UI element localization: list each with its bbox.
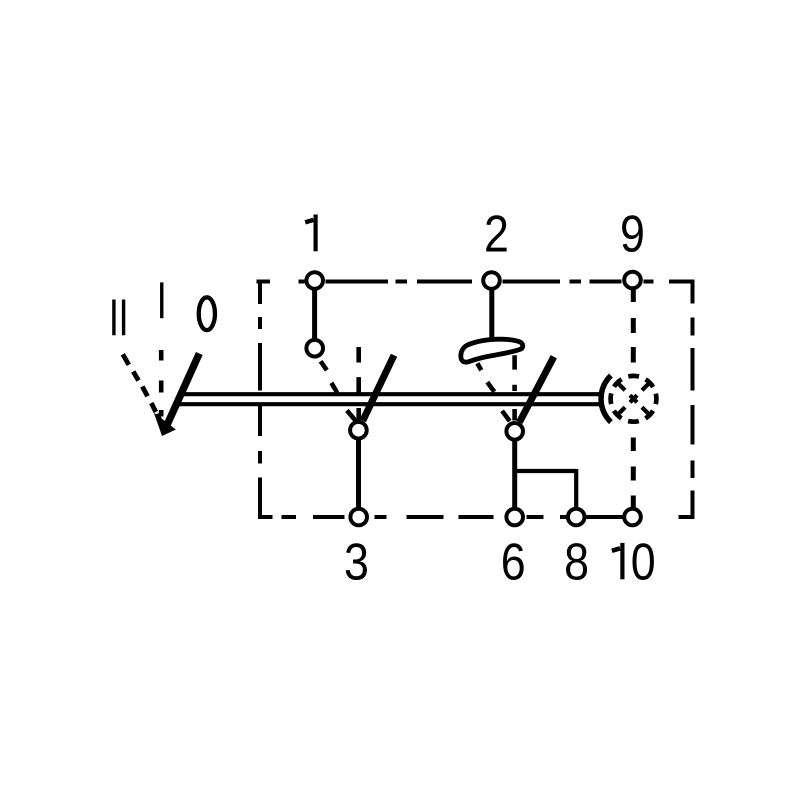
terminal 6 circle	[506, 509, 523, 526]
label position I	[160, 282, 163, 318]
svg-text:8: 8	[564, 534, 589, 592]
switch box dashed outline bottom edge	[258, 515, 695, 519]
wire actuator bar bottom line	[177, 402, 602, 406]
pole B position I dashed lever	[512, 355, 517, 420]
pole B solid lever position 0	[519, 357, 553, 423]
dashed wire lamp to terminal 9	[631, 289, 636, 363]
wire jumper terminal 6 to terminal 8	[513, 469, 577, 510]
wire contact to terminal 3	[356, 437, 361, 510]
contact shoe of pole B	[461, 339, 523, 362]
svg-text:9: 9	[620, 206, 645, 264]
label terminal 1	[314, 215, 318, 252]
wire actuator bar top line	[181, 392, 601, 396]
svg-text:0: 0	[631, 534, 656, 592]
pole A solid lever position 0	[363, 355, 394, 421]
terminal 1 circle	[306, 272, 323, 289]
label position 0	[199, 297, 215, 330]
wire terminal 1 to contact circle	[312, 286, 317, 340]
main lever position I dashed	[159, 350, 164, 417]
pole A position I dashed lever	[356, 347, 361, 422]
wire contact to terminal 6	[512, 438, 517, 510]
main lever solid position 0	[167, 354, 200, 426]
svg-text:2: 2	[484, 205, 509, 263]
main lever position II dashed	[123, 354, 160, 420]
dashed wire lamp to terminal 10	[631, 438, 636, 510]
lamp X filament	[617, 382, 651, 416]
pole A moving contact circle	[350, 422, 367, 439]
switch box dashed outline top edge	[257, 280, 695, 284]
main lever arrowhead	[154, 413, 176, 437]
svg-text:3: 3	[344, 534, 369, 592]
terminal 9 circle	[624, 272, 641, 289]
terminal 8 circle	[568, 509, 585, 526]
terminal 3 circle	[350, 509, 367, 526]
pole B position II dashed lever	[477, 363, 509, 421]
lamp contact arc	[601, 376, 611, 423]
pole A fixed contact circle	[306, 340, 323, 357]
lamp dashed circle	[611, 376, 657, 422]
pole A position II dashed lever	[321, 361, 356, 421]
switch box dashed outline left edge	[258, 282, 262, 518]
wire terminal 2 down to contact shoe	[489, 286, 494, 340]
terminal 10 circle	[624, 509, 641, 526]
pole B moving contact circle	[506, 423, 523, 440]
terminal 2 circle	[483, 272, 500, 289]
svg-text:6: 6	[501, 534, 526, 592]
label terminal 10	[620, 543, 624, 579]
label position II	[114, 300, 124, 336]
switch box dashed outline right edge	[691, 282, 695, 518]
